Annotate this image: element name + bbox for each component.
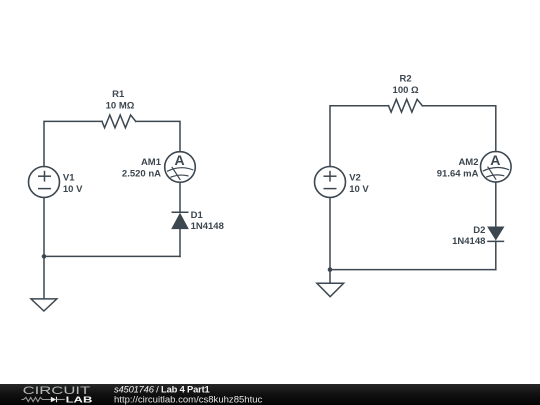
wire: ammeter AM2 bottom to diode D2 [495, 182, 497, 227]
wire: right circuit bottom [330, 269, 496, 271]
resistor R2 [389, 99, 423, 112]
svg-text:R1: R1 [112, 89, 125, 100]
footer bar [0, 384, 540, 405]
D1 labels: D1 / 1N4148 [191, 210, 224, 232]
svg-text:A: A [490, 152, 500, 168]
svg-text:V2: V2 [349, 172, 361, 183]
node: bottom-left junction dot [42, 254, 47, 259]
resistor R1 [102, 115, 136, 128]
D2 labels: D2 / 1N4148 [452, 225, 485, 247]
V2 labels: V2 / 10 V [349, 172, 369, 194]
svg-text:10 MΩ: 10 MΩ [106, 100, 135, 111]
ground left [31, 256, 57, 311]
svg-text:100 Ω: 100 Ω [393, 85, 419, 96]
svg-text:D2: D2 [473, 225, 485, 236]
ground right [317, 270, 344, 297]
wire: ammeter AM1 bottom to diode D1 [179, 182, 181, 212]
svg-text:A: A [174, 152, 184, 168]
ammeter AM1 [165, 152, 196, 183]
footer logo resistor squiggle [22, 397, 51, 401]
svg-text:10 V: 10 V [349, 184, 369, 195]
diode D1 [172, 212, 189, 228]
svg-text:1N4148: 1N4148 [191, 221, 224, 232]
wire: diode D1 to bottom wire [179, 229, 181, 257]
wire: V1 bottom to bottom-left junction [43, 198, 45, 257]
wire: right circuit top-left lead to resistor R2 [330, 106, 389, 167]
svg-text:10 V: 10 V [63, 184, 83, 195]
AM1 labels: AM1 / 2.520 nA [122, 157, 162, 179]
wire: resistor R1 to ammeter AM1 top [136, 121, 180, 151]
svg-text:D1: D1 [191, 210, 204, 221]
ammeter AM2 [481, 152, 512, 183]
svg-text:91.64 mA: 91.64 mA [437, 168, 479, 179]
svg-text:LAB: LAB [66, 396, 93, 405]
diode D2 [487, 227, 504, 241]
svg-text:1N4148: 1N4148 [452, 236, 485, 247]
wire: V2 bottom to bottom junction [329, 198, 331, 270]
svg-text:2.520 nA: 2.520 nA [122, 168, 161, 179]
svg-text:V1: V1 [63, 172, 75, 183]
V1 labels: V1 / 10 V [63, 172, 83, 194]
AM2 labels: AM2 / 91.64 mA [437, 157, 479, 179]
R1 labels: R1 / 10 MΩ [106, 89, 135, 111]
svg-text:http://circuitlab.com/cs8kuhz8: http://circuitlab.com/cs8kuhz85htuc [114, 394, 263, 404]
svg-text:AM1: AM1 [141, 157, 162, 168]
svg-text:s4501746 / Lab 4 Part1: s4501746 / Lab 4 Part1 [114, 384, 210, 395]
wire: diode D2 to bottom wire [495, 241, 497, 269]
voltage source V2 [315, 167, 346, 198]
footer logo diode symbol [51, 397, 65, 403]
voltage source V1 [29, 167, 60, 198]
wire: resistor R2 to ammeter AM2 top [422, 106, 496, 152]
R2 labels: R2 / 100 Ω [393, 73, 419, 96]
node: bottom junction dot right circuit [328, 267, 333, 272]
svg-text:AM2: AM2 [458, 157, 478, 168]
svg-text:R2: R2 [400, 73, 412, 84]
wire: left circuit top-left lead to resistor R1 [44, 121, 102, 166]
wire: left circuit bottom [44, 255, 180, 257]
